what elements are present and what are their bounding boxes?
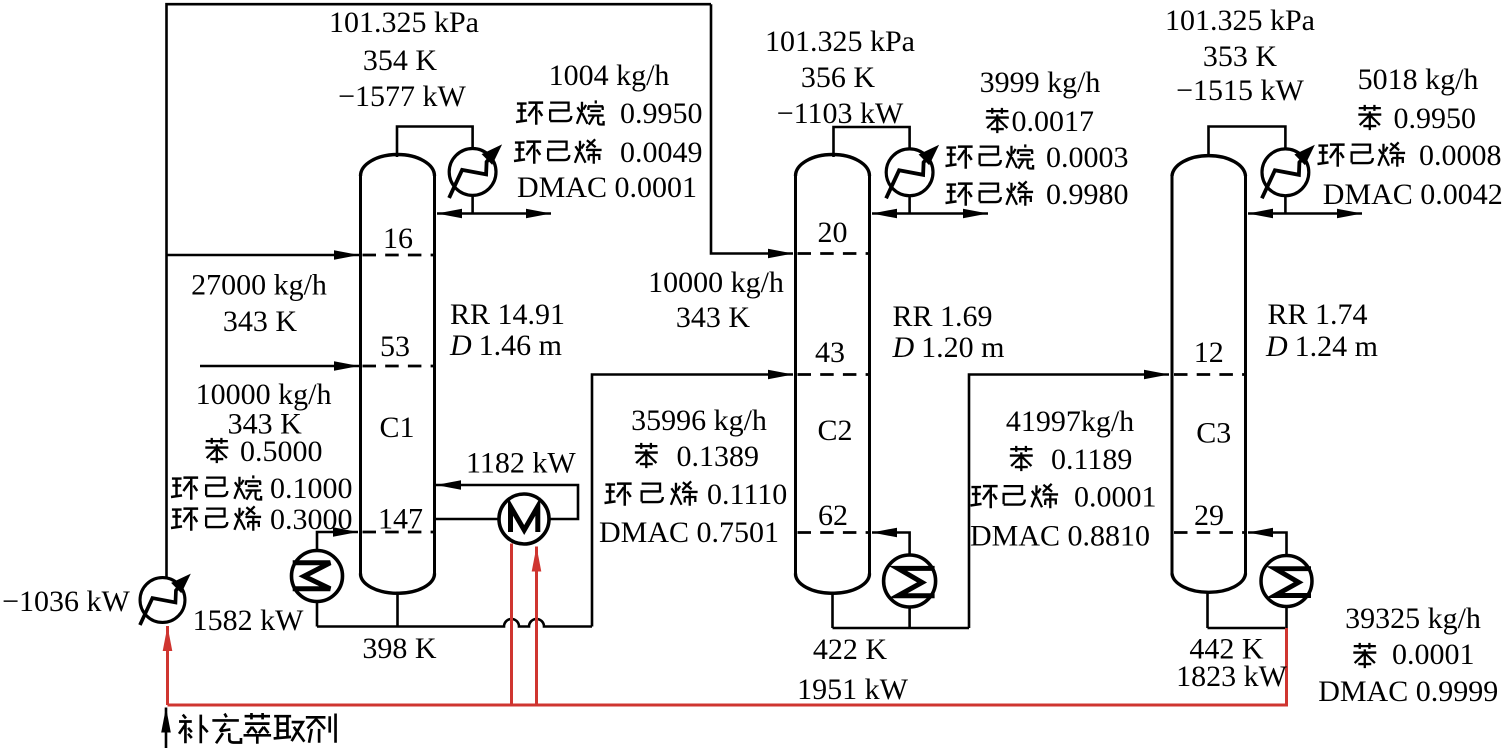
solvent cooler (-1036 kW) [140, 574, 191, 625]
svg-text:DMAC 0.8810: DMAC 0.8810 [970, 520, 1150, 553]
wire C3 reboiler riser and return to tray 29 [1248, 533, 1287, 557]
svg-text:343 K: 343 K [676, 301, 751, 334]
svg-text:41997kg/h: 41997kg/h [1006, 405, 1134, 438]
svg-text:5018 kg/h: 5018 kg/h [1358, 63, 1479, 96]
wire C1 bottoms to C2 tray 43 [592, 375, 793, 627]
svg-text:−1103 kW: −1103 kW [777, 97, 904, 130]
svg-text:1951 kW: 1951 kW [797, 673, 909, 706]
svg-text:343 K: 343 K [223, 305, 298, 338]
wire fresh feed to C1 tray 53 [200, 365, 359, 368]
svg-text:35996 kg/h: 35996 kg/h [631, 404, 767, 437]
svg-text:1823 kW: 1823 kW [1176, 660, 1288, 693]
wire C2 overhead vapor [834, 127, 910, 157]
wire C1 condenser outlet [471, 195, 474, 212]
svg-text:43: 43 [815, 336, 845, 369]
svg-text:0.0001: 0.0001 [1392, 638, 1475, 671]
wire C1 column bottom outlet [396, 592, 399, 627]
svg-text:101.325 kPa: 101.325 kPa [765, 25, 915, 58]
wire recycle riser to cooler (red) [166, 626, 169, 705]
svg-text:DMAC 0.7501: DMAC 0.7501 [599, 516, 779, 549]
svg-text:0.9950: 0.9950 [620, 97, 703, 130]
svg-text:0.0049: 0.0049 [620, 136, 703, 169]
svg-text:422 K: 422 K [813, 633, 888, 666]
svg-text:27000 kg/h: 27000 kg/h [191, 269, 327, 302]
svg-text:356 K: 356 K [801, 61, 876, 94]
wire C3 column bottom outlet [1206, 592, 1209, 629]
wire recycle branch through heater left (red) [510, 544, 513, 706]
wire solvent to C2 top [711, 4, 793, 253]
wire C1 heater return [436, 485, 578, 519]
column C1 [361, 155, 435, 594]
wire makeup extractant arrow [165, 708, 168, 748]
tray 62 line [798, 531, 869, 534]
wire C1 reboiler downcomer [316, 602, 319, 627]
svg-text:20: 20 [818, 216, 848, 249]
wire C3 reboiler downcomer [1285, 606, 1288, 628]
svg-text:RR 1.74: RR 1.74 [1268, 298, 1368, 331]
wire solvent feed to C1 tray 16 [167, 254, 360, 257]
column C3 [1172, 156, 1246, 593]
svg-text:D1.24 m: D1.24 m [1265, 330, 1378, 363]
svg-text:0.5000: 0.5000 [240, 435, 323, 468]
wire C3 reflux/distillate double arrow [1248, 212, 1362, 215]
svg-text:0.0017: 0.0017 [1012, 105, 1095, 138]
wire C1 reboiler riser and return to tray 147 [317, 532, 358, 551]
svg-text:0.0001: 0.0001 [1074, 481, 1157, 514]
reboiler C2 (1951 kW) [884, 555, 936, 607]
wire solvent riser / left border [167, 4, 712, 577]
tray 43 line [798, 373, 869, 376]
svg-text:0.1000: 0.1000 [270, 472, 353, 505]
svg-text:39325 kg/h: 39325 kg/h [1345, 602, 1481, 635]
svg-text:10000 kg/h: 10000 kg/h [648, 266, 784, 299]
wire C2 column bottom outlet [831, 592, 834, 629]
tray 16 line [363, 254, 434, 257]
svg-text:147: 147 [378, 503, 423, 536]
svg-text:1004 kg/h: 1004 kg/h [549, 59, 670, 92]
svg-text:−1577 kW: −1577 kW [338, 80, 466, 113]
svg-text:53: 53 [380, 330, 410, 363]
wire C2 condenser outlet [908, 196, 911, 213]
condenser E2 (C2 overhead) [886, 145, 939, 199]
wire C2 bottoms to C3 tray 12 [969, 375, 1169, 629]
column C2 [796, 155, 870, 594]
wire C3 bottoms header [1208, 627, 1286, 630]
wire C1 overhead vapor [397, 127, 473, 158]
reboiler C3 (1823 kW) [1261, 556, 1312, 607]
svg-text:3999 kg/h: 3999 kg/h [980, 66, 1101, 99]
svg-text:0.9950: 0.9950 [1394, 102, 1477, 135]
svg-text:1182 kW: 1182 kW [466, 447, 576, 480]
svg-text:0.1189: 0.1189 [1051, 443, 1132, 476]
svg-text:0.3000: 0.3000 [270, 503, 353, 536]
tray 53 line [363, 365, 434, 368]
wire C2 reboiler downcomer [908, 607, 911, 629]
tray 29 line [1174, 531, 1244, 534]
svg-text:0.1389: 0.1389 [677, 440, 760, 473]
wire recycle branch into heater arrow (red) [535, 547, 538, 706]
reboiler C1 (1582 kW) [292, 551, 343, 602]
svg-text:RR 14.91: RR 14.91 [450, 298, 565, 331]
wire C3 bottoms solvent recycle (red) [168, 628, 1287, 705]
svg-text:101.325 kPa: 101.325 kPa [329, 6, 479, 39]
svg-text:0.0003: 0.0003 [1046, 141, 1129, 174]
svg-text:C3: C3 [1196, 417, 1231, 450]
wire C1 reflux/distillate double arrow [437, 212, 551, 215]
wire C2 bottoms header [833, 627, 970, 630]
wire C3 condenser outlet [1284, 196, 1287, 213]
svg-text:12: 12 [1194, 336, 1224, 369]
tray 20 line [798, 252, 869, 255]
svg-text:C1: C1 [379, 411, 414, 444]
svg-text:DMAC 0.9999: DMAC 0.9999 [1318, 675, 1498, 708]
svg-text:DMAC 0.0042: DMAC 0.0042 [1323, 178, 1503, 211]
wire C2 reboiler riser and return to tray 62 [872, 533, 910, 557]
svg-text:1582 kW: 1582 kW [193, 604, 305, 637]
svg-text:16: 16 [383, 222, 413, 255]
svg-text:C2: C2 [817, 414, 852, 447]
svg-text:398 K: 398 K [362, 632, 437, 665]
condenser E1 (C1 overhead) [449, 144, 502, 198]
wire C2 reflux/distillate double arrow [872, 212, 988, 215]
svg-text:0.9980: 0.9980 [1046, 178, 1129, 211]
svg-text:62: 62 [818, 499, 848, 532]
svg-text:−1515 kW: −1515 kW [1176, 74, 1304, 107]
svg-text:−1036 kW: −1036 kW [2, 585, 130, 618]
svg-text:D1.46 m: D1.46 m [449, 329, 562, 362]
svg-text:0.0008: 0.0008 [1419, 139, 1502, 172]
wire C3 overhead vapor [1209, 127, 1286, 158]
wire C1 bottoms header with jump-overs [317, 619, 592, 626]
node makeup extractant label [179, 713, 335, 744]
svg-text:353 K: 353 K [1203, 40, 1278, 73]
svg-text:RR 1.69: RR 1.69 [893, 300, 993, 333]
wire C1 side draw to heater [434, 518, 499, 521]
svg-text:DMAC 0.0001: DMAC 0.0001 [517, 171, 697, 204]
svg-text:101.325 kPa: 101.325 kPa [1165, 4, 1315, 37]
svg-text:D1.20 m: D1.20 m [892, 331, 1005, 364]
svg-text:0.1110: 0.1110 [707, 478, 787, 511]
svg-text:29: 29 [1194, 499, 1224, 532]
svg-text:10000 kg/h: 10000 kg/h [196, 378, 332, 411]
svg-text:354 K: 354 K [363, 44, 438, 77]
side heater C1 (1182 kW) [499, 494, 549, 544]
condenser E3 (C3 overhead) [1262, 145, 1315, 199]
tray 147 line [363, 531, 434, 534]
tray 12 line [1174, 373, 1244, 376]
